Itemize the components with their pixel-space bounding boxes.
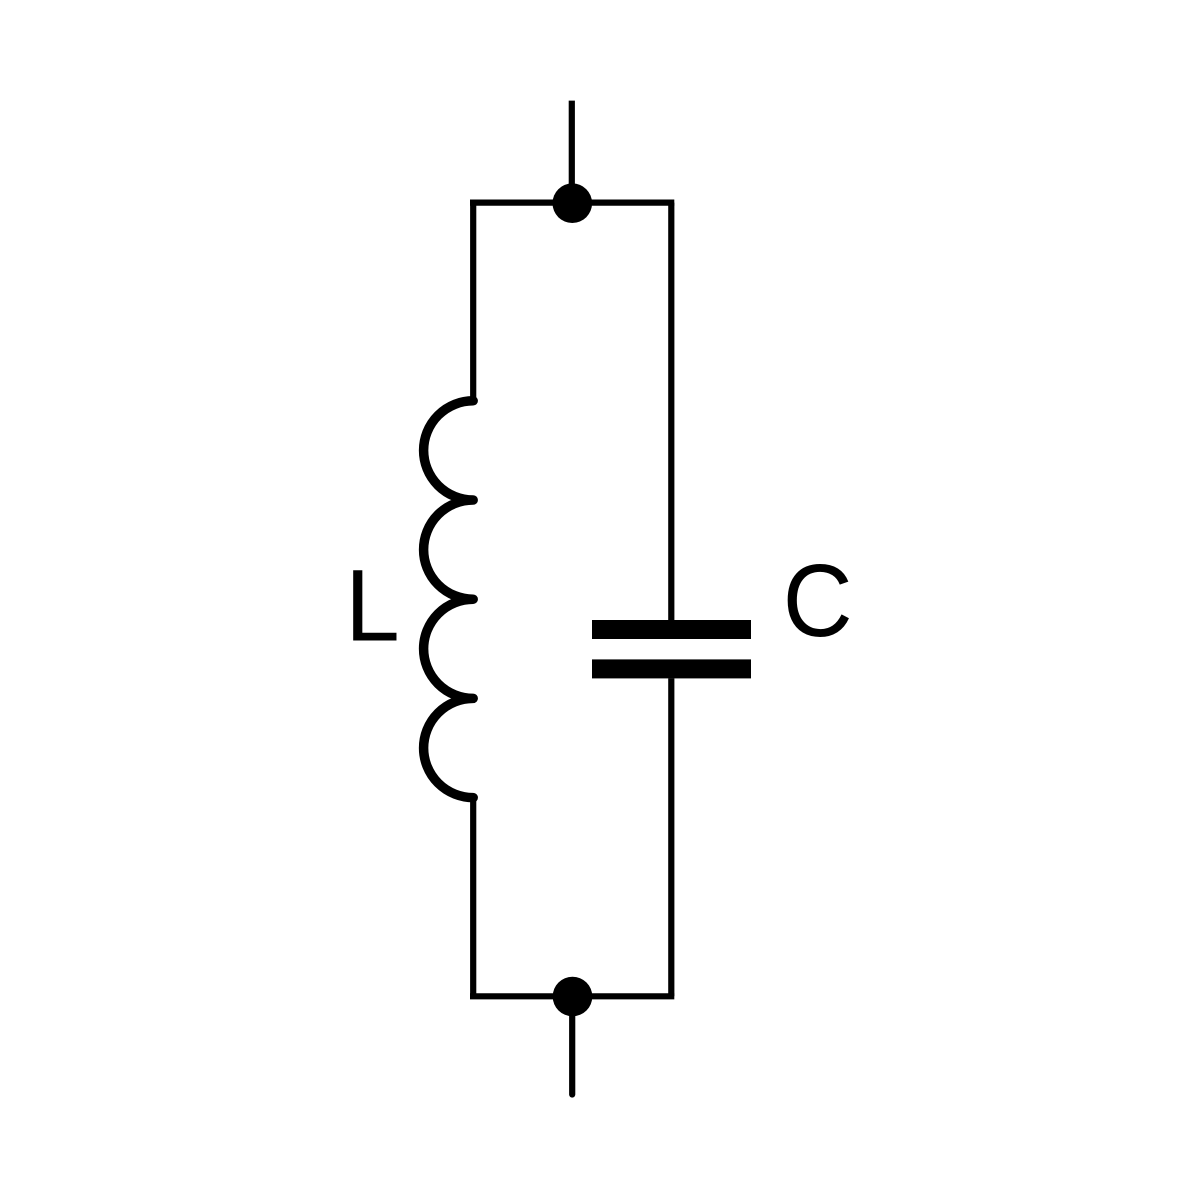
- wire right branch upper segment: [668, 203, 674, 620]
- bottom horizontal wire: [470, 993, 674, 999]
- node bottom junction dot: [553, 977, 593, 1017]
- bottom terminal lead wire: [569, 996, 575, 1094]
- svg-text:L: L: [345, 549, 400, 663]
- capacitor C bottom plate: [592, 659, 751, 678]
- top horizontal wire: [470, 200, 674, 206]
- svg-text:C: C: [783, 544, 853, 658]
- top terminal lead wire: [569, 101, 575, 203]
- wire left branch upper segment: [470, 203, 476, 401]
- capacitor C top plate: [592, 620, 751, 639]
- node top junction dot: [553, 183, 593, 223]
- wire right branch lower segment: [668, 678, 674, 996]
- wire left branch lower segment: [470, 798, 476, 997]
- inductor L coil arcs: [424, 401, 474, 798]
